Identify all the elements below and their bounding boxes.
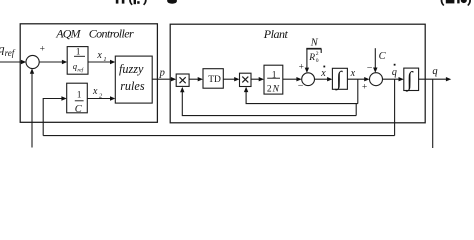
block 1/C (67, 83, 88, 113)
svg-text:+: + (362, 82, 367, 92)
wire feedback into S1 from below (cropped) (31, 73, 33, 148)
block TD delay (203, 69, 223, 89)
svg-text:−: − (367, 63, 373, 74)
wire M1 to TD (189, 78, 198, 80)
wire feedback to M2 bottom (246, 91, 358, 103)
svg-text:0: 0 (316, 58, 319, 64)
block 1/qref (67, 47, 88, 75)
wire x2 to fuzzy (87, 98, 110, 100)
svg-text:R: R (308, 53, 315, 63)
svg-text:rules: rules (120, 79, 145, 93)
multiplier M2 (240, 73, 252, 86)
svg-text:∫: ∫ (405, 67, 414, 92)
block 1/2N (264, 65, 283, 94)
svg-text:+: + (299, 63, 304, 73)
wire x1 to fuzzy (88, 61, 111, 63)
integrator I1 (332, 68, 347, 89)
wire x to S3 (347, 78, 364, 80)
svg-text:1: 1 (103, 56, 106, 63)
Plant outer box (170, 24, 425, 123)
integrator I2 (404, 68, 419, 90)
svg-text:AQM: AQM (55, 27, 81, 41)
constant N/R0^2 into S2 (306, 49, 308, 69)
wire x feedback tap down (357, 79, 359, 103)
summing junction S3 (370, 73, 383, 86)
wire q_ref input (0, 61, 22, 63)
block fuzzy rules (115, 56, 152, 103)
svg-text:x: x (320, 68, 326, 79)
svg-text:x: x (350, 68, 356, 79)
wire 1/2N to S2 (283, 78, 297, 80)
svg-text:TD: TD (208, 75, 221, 85)
svg-text:x: x (92, 86, 98, 97)
wire qdot feedback down (394, 79, 396, 135)
summing junction S1 (26, 55, 39, 68)
summing junction S2 (302, 73, 315, 86)
wire TD to M2 (223, 78, 235, 80)
constant C into S3 (374, 48, 376, 68)
svg-text:p: p (159, 68, 165, 79)
svg-text:q: q (432, 66, 437, 77)
wire S1 to 1/qref (39, 61, 62, 63)
svg-text:ref: ref (5, 48, 16, 58)
svg-text:2: 2 (267, 85, 272, 95)
svg-text:1: 1 (76, 47, 81, 57)
wire feedback to M1 bottom (182, 91, 356, 115)
svg-text:fuzzy: fuzzy (119, 62, 144, 76)
svg-text:Controller: Controller (89, 27, 134, 41)
svg-text:1: 1 (77, 89, 82, 99)
svg-text:−: − (298, 81, 304, 92)
svg-text:2: 2 (316, 51, 319, 57)
svg-text:Plant: Plant (263, 27, 289, 41)
wire q feedback down (cropped) (432, 79, 434, 148)
node equation fragment (cropped text top) (116, 0, 177, 5)
wire S3 to integrator I2 (383, 78, 400, 80)
svg-text:N: N (272, 85, 280, 95)
wire S2 to integrator I1 (315, 78, 328, 80)
svg-text:q: q (392, 67, 397, 78)
svg-text:x: x (96, 50, 102, 61)
AQM controller outer box (20, 24, 157, 123)
wire q output (419, 78, 447, 80)
multiplier M1 (176, 74, 189, 86)
svg-text:C: C (379, 51, 387, 62)
svg-text:+: + (40, 44, 45, 54)
svg-text:C: C (75, 104, 83, 115)
wire qdot feedback across bottom to 1/C (43, 135, 394, 137)
wire M2 to 1/2N (251, 78, 259, 80)
svg-text:N: N (310, 37, 319, 48)
wire p output of fuzzy (152, 78, 171, 80)
wire x feedback jog (355, 104, 357, 116)
node equation number (2.16) cropped (441, 0, 471, 6)
wire feedback up to 1/C (43, 99, 62, 136)
